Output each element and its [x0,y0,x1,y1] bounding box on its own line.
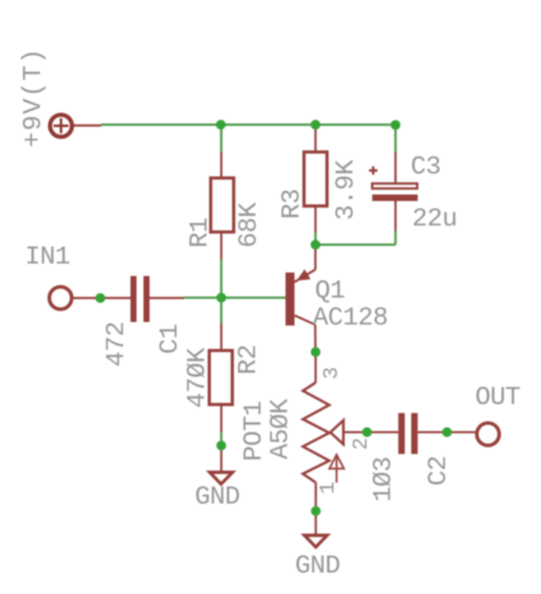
wire IN1 to C1 [74,297,131,299]
wire C3 top drop [394,125,396,152]
wire R1 top [220,125,222,152]
svg-text:GND: GND [295,551,340,581]
junction dot pot bottom [311,506,321,516]
svg-text:POT1: POT1 [238,401,268,461]
wire R1 bottom to base node [220,259,222,298]
svg-text:3: 3 [321,367,344,380]
svg-text:R3: R3 [277,189,307,219]
svg-text:22u: 22u [412,203,457,233]
supply +9V pin [74,124,102,126]
junction dot R2 bottom [216,441,226,451]
junction dot rail-R3 [311,120,321,130]
svg-text:C2: C2 [423,456,453,486]
port OUT [477,423,499,445]
junction dot collector node [311,347,321,357]
svg-text:3.9K: 3.9K [331,159,361,220]
junction dot rail-C3 [391,120,401,130]
junction dot rail-R1 [216,120,226,130]
wire top rail [101,123,396,125]
wire C2 to OUT [447,431,475,433]
junction dot IN1 wire [95,293,105,303]
wire R3 bottom [314,233,316,245]
transistor Q1 [286,245,316,352]
ground GND bottom [301,511,332,549]
potentiometer POT1 [303,352,367,511]
resistor R2 [209,324,232,433]
svg-text:OUT: OUT [475,382,520,412]
wire R2 bottom [220,432,222,446]
svg-text:1: 1 [318,482,341,495]
junction dot wiper left [362,427,372,437]
port IN1 [49,287,71,309]
svg-text:R1: R1 [185,218,215,248]
pot trimmer arrow [329,455,344,483]
junction dot wiper right [442,427,452,437]
junction dot base node [216,293,226,303]
capacitor C3 [369,152,418,231]
svg-text:C3: C3 [411,151,441,181]
wire C3 bottom drop [394,231,396,245]
wire emitter node horizontal [316,243,396,245]
svg-text:2: 2 [351,437,374,450]
svg-text:+9V(T): +9V(T) [18,47,48,147]
wire base node to Q1 [184,297,286,299]
resistor R3 [304,125,327,233]
svg-text:C1: C1 [155,324,185,354]
supply +9V symbol [50,115,72,137]
svg-text:AC128: AC128 [313,302,388,332]
wire R2 top [220,298,222,324]
svg-text:47ØK: 47ØK [182,347,212,408]
svg-text:R2: R2 [233,345,263,375]
svg-text:A5ØK: A5ØK [265,398,295,459]
svg-text:Q1: Q1 [315,276,345,306]
svg-text:472: 472 [101,322,131,367]
junction dot emitter node [311,240,321,250]
svg-text:1Ø3: 1Ø3 [368,457,398,502]
resistor R1 [211,152,234,259]
svg-text:IN1: IN1 [25,241,70,271]
ground GND left [206,446,237,487]
svg-text:68K: 68K [233,202,263,248]
capacitor C1 [131,276,185,322]
svg-text:GND: GND [195,482,240,512]
capacitor C2 [367,413,447,454]
